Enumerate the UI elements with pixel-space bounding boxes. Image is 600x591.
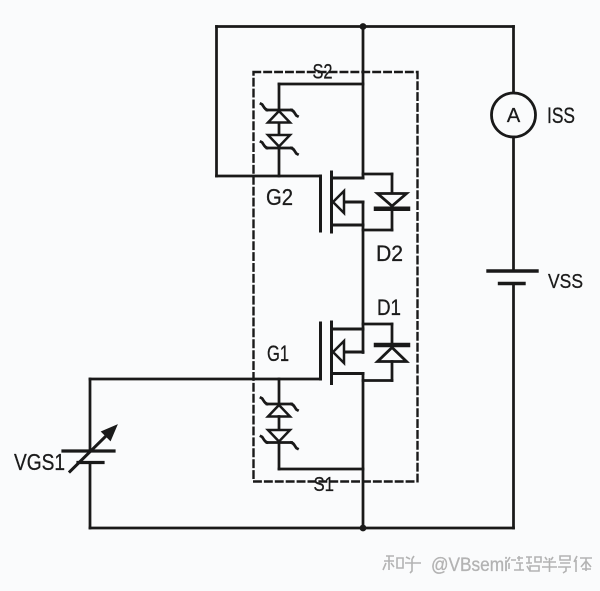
- source stub: [332, 372, 364, 375]
- drain stub: [332, 328, 364, 331]
- wire D1 branch top tap: [363, 323, 392, 326]
- svg-text:S2: S2: [313, 61, 333, 84]
- gate plate: [319, 176, 322, 231]
- battery VSS: [488, 271, 537, 284]
- wire D2 branch top tap: [363, 173, 392, 176]
- dashed enclosure box: [254, 72, 418, 482]
- 微: [507, 556, 524, 570]
- wire zener stack top lead: [278, 84, 281, 110]
- wire right rail upper: [512, 27, 515, 94]
- wire left rail vertical: [215, 27, 218, 177]
- transistor Q2 (upper MOSFET): [321, 172, 364, 232]
- svg-text:@VBsemi: @VBsemi: [431, 555, 508, 576]
- wire zener stack (lower) top lead: [278, 379, 281, 404]
- wire VGS1 rail upper: [89, 379, 92, 451]
- svg-text:G2: G2: [266, 184, 293, 210]
- source VGS1 (variable, battery plates): [63, 426, 117, 472]
- wire zener stack bottom lead to G2 line: [278, 148, 281, 176]
- source stub: [332, 224, 364, 227]
- wire zener stack bottom lead (lower): [278, 443, 281, 470]
- zener Z1 (upper stack, cathode up): [261, 104, 298, 123]
- node S1 junction dot: [360, 525, 367, 532]
- body arrow stub: [344, 351, 363, 354]
- wire top horizontal: [217, 25, 514, 28]
- 半: [542, 557, 557, 572]
- svg-text:D1: D1: [377, 295, 401, 320]
- wire D1 branch bottom tap: [363, 379, 392, 382]
- wire main rail upper (S2 to Q2 drain stub): [362, 27, 365, 179]
- wire bottom horizontal: [90, 527, 514, 530]
- node S2 junction dot: [360, 23, 367, 30]
- zener Z3 (lower stack, cathode up): [261, 398, 298, 417]
- svg-text:A: A: [507, 105, 521, 127]
- gate plate: [319, 323, 322, 379]
- wire zener mid link (upper stack): [278, 123, 281, 135]
- zener Z4 (lower stack, cathode down): [261, 430, 298, 449]
- zener Z2 (upper stack, cathode down): [261, 135, 298, 154]
- wire right rail mid: [512, 137, 515, 270]
- body arrow stub: [344, 201, 363, 204]
- drain stub: [332, 177, 364, 180]
- 体: [574, 556, 592, 572]
- transistor Q1 (lower MOSFET): [321, 322, 364, 384]
- channel bar: [330, 322, 333, 384]
- 碧: [526, 557, 541, 571]
- wire S1 inner horizontal: [279, 468, 363, 471]
- wire S2 inner horizontal to zener stack: [279, 83, 363, 86]
- diode D2 body diode (pointing down): [376, 174, 408, 230]
- wire G1 gate lead: [90, 378, 321, 381]
- meter A (ammeter ISS): [492, 93, 536, 137]
- body arrowhead: [333, 191, 344, 213]
- svg-text:G1: G1: [267, 341, 289, 366]
- wire VGS1 rail lower: [89, 463, 92, 529]
- body arrowhead: [333, 341, 344, 363]
- 导: [558, 556, 571, 573]
- watermark 知乎 @VBsemi微碧半导体: [383, 556, 592, 573]
- svg-text:ISS: ISS: [547, 103, 575, 128]
- 乎: [405, 556, 421, 573]
- svg-text:S1: S1: [314, 474, 335, 496]
- wire D2 branch bottom tap: [363, 229, 392, 232]
- 知: [383, 556, 403, 570]
- wire main rail lower (Q1 source to S1 node): [362, 374, 365, 529]
- wire right rail lower: [512, 284, 515, 529]
- channel bar: [330, 172, 333, 232]
- svg-text:VGS1: VGS1: [14, 449, 65, 475]
- wire mid rail (Q2 body tie through D2/D1 node to Q1): [362, 202, 365, 353]
- wire zener mid link (lower stack): [278, 417, 281, 431]
- svg-text:VSS: VSS: [548, 271, 583, 293]
- diode D1 body diode (pointing up): [376, 324, 408, 381]
- wire G2 gate lead: [217, 175, 321, 178]
- svg-text:D2: D2: [376, 241, 403, 266]
